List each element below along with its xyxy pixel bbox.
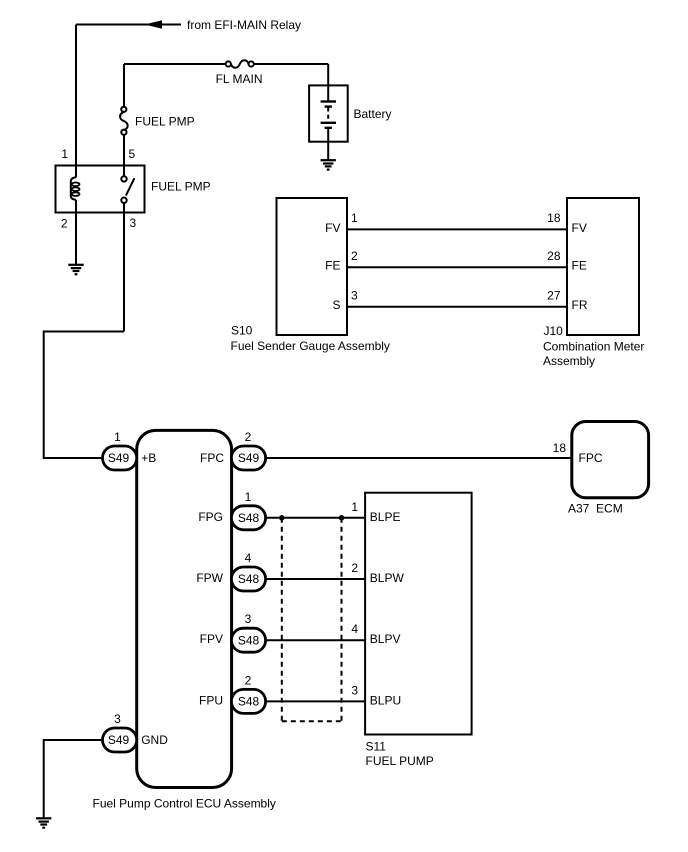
svg-text:27: 27 [547, 288, 561, 302]
svg-text:BLPE: BLPE [370, 510, 401, 524]
junction dot right [339, 515, 345, 521]
svg-text:4: 4 [245, 551, 252, 565]
svg-text:Fuel Pump Control ECU Assembly: Fuel Pump Control ECU Assembly [93, 797, 276, 811]
ECU Fuel Pump Control ECU Assembly box [137, 430, 232, 787]
svg-text:FV: FV [325, 221, 340, 235]
svg-text:BLPU: BLPU [370, 693, 401, 707]
connector S48 FPW oval [231, 567, 265, 591]
svg-text:FV: FV [572, 221, 587, 235]
svg-text:FPG: FPG [198, 510, 223, 524]
connector S48 FPV oval [231, 628, 265, 652]
wire from FL MAIN corner down to FUEL PMP fuse [123, 64, 125, 107]
connector S49 +B oval [103, 446, 137, 470]
svg-text:FUEL PMP: FUEL PMP [151, 180, 211, 194]
svg-text:Battery: Battery [354, 107, 392, 121]
connector S49 FPC oval [231, 446, 265, 470]
ground under battery [321, 160, 336, 169]
svg-text:2: 2 [245, 673, 252, 687]
svg-text:1: 1 [351, 211, 358, 225]
wire FL MAIN horizontal right segment to battery [254, 63, 328, 65]
wire GND to ground [44, 740, 103, 818]
svg-text:2: 2 [61, 217, 68, 231]
arrowhead from EFI-MAIN Relay [145, 20, 163, 29]
svg-text:GND: GND [141, 733, 168, 747]
ground under relay pin 2 [68, 265, 83, 274]
ground bottom left [36, 818, 51, 827]
wire from EFI-MAIN Relay arrow line [76, 24, 181, 26]
junction dot left [279, 515, 285, 521]
svg-text:1: 1 [114, 430, 121, 444]
svg-text:FE: FE [325, 259, 340, 273]
wire FPC to ECM [266, 457, 572, 459]
svg-text:FUEL PMP: FUEL PMP [135, 115, 195, 129]
svg-text:BLPW: BLPW [370, 571, 405, 585]
wire FV S10 to J10 [347, 228, 567, 230]
wire FPV to BLPV [266, 639, 366, 641]
svg-text:S: S [332, 298, 340, 312]
connector S48 FPG oval [231, 506, 265, 530]
svg-text:FE: FE [572, 259, 587, 273]
connector S48 FPU oval [231, 689, 265, 713]
svg-text:2: 2 [351, 561, 358, 575]
wire relay coil to pin 2 ground [75, 200, 77, 265]
svg-text:S11: S11 [366, 740, 387, 754]
svg-text:FPV: FPV [200, 632, 223, 646]
wire S S10 to J10 [347, 306, 567, 308]
svg-text:FPW: FPW [196, 571, 223, 585]
component J10 Combination Meter Assembly box [567, 198, 639, 335]
relay coil [71, 177, 80, 200]
fuse FL MAIN [216, 60, 263, 86]
svg-text:18: 18 [547, 211, 561, 225]
wire pin3 corner to left [44, 332, 124, 459]
svg-text:2: 2 [245, 430, 252, 444]
wire FPW to BLPW [266, 578, 366, 580]
svg-text:1: 1 [61, 147, 68, 161]
svg-text:S10: S10 [231, 324, 253, 338]
svg-text:from EFI-MAIN Relay: from EFI-MAIN Relay [187, 18, 301, 32]
wire into battery [327, 64, 329, 102]
battery box [309, 85, 348, 141]
svg-text:A37 ECM: A37 ECM [568, 502, 623, 516]
svg-text:3: 3 [351, 683, 358, 697]
svg-text:FPU: FPU [199, 693, 223, 707]
ECM A37 box [572, 422, 649, 498]
svg-text:FPC: FPC [579, 451, 603, 465]
shield dashed box [282, 518, 342, 722]
svg-text:S49: S49 [108, 733, 130, 747]
wire FE S10 to J10 [347, 266, 567, 268]
svg-text:1: 1 [351, 500, 358, 514]
svg-text:18: 18 [553, 441, 567, 455]
connector S49 GND oval [103, 728, 137, 752]
svg-text:S48: S48 [238, 572, 260, 586]
svg-text:Assembly: Assembly [543, 354, 595, 368]
component S10 Fuel Sender Gauge Assembly box [277, 198, 348, 335]
svg-text:5: 5 [129, 147, 136, 161]
svg-text:3: 3 [351, 288, 358, 302]
wire from FUEL PMP fuse to relay pin 5 [123, 135, 125, 176]
svg-text:S49: S49 [238, 451, 260, 465]
component S11 FUEL PUMP box [365, 493, 472, 735]
svg-text:FL MAIN: FL MAIN [216, 72, 263, 86]
wire FPU to BLPU [266, 700, 366, 702]
svg-text:3: 3 [130, 216, 137, 230]
svg-text:+B: +B [141, 451, 156, 465]
fuse FUEL PMP [120, 107, 195, 135]
wire FPG to BLPE [266, 517, 366, 519]
svg-text:FR: FR [572, 298, 588, 312]
wire FL MAIN horizontal left segment [124, 63, 226, 65]
relay switch [121, 176, 134, 203]
wire vertical to relay pin 1 [75, 25, 77, 178]
svg-text:FUEL PUMP: FUEL PUMP [366, 754, 434, 768]
svg-text:J10: J10 [544, 324, 564, 338]
svg-text:4: 4 [351, 622, 358, 636]
svg-text:FPC: FPC [200, 451, 224, 465]
svg-text:S48: S48 [238, 511, 260, 525]
svg-text:3: 3 [114, 712, 121, 726]
svg-text:1: 1 [245, 490, 252, 504]
svg-text:Combination Meter: Combination Meter [543, 339, 644, 353]
svg-text:Fuel Sender Gauge Assembly: Fuel Sender Gauge Assembly [231, 339, 390, 353]
relay FUEL PMP box [56, 166, 145, 213]
svg-text:S48: S48 [238, 695, 260, 709]
wire battery to ground [327, 128, 329, 160]
svg-text:3: 3 [245, 612, 252, 626]
svg-text:2: 2 [351, 249, 358, 263]
svg-text:S49: S49 [108, 451, 130, 465]
svg-text:S48: S48 [238, 633, 260, 647]
battery symbol B [321, 102, 336, 128]
wire relay pin 3 down [123, 203, 125, 332]
svg-text:BLPV: BLPV [370, 632, 401, 646]
svg-text:28: 28 [547, 249, 561, 263]
